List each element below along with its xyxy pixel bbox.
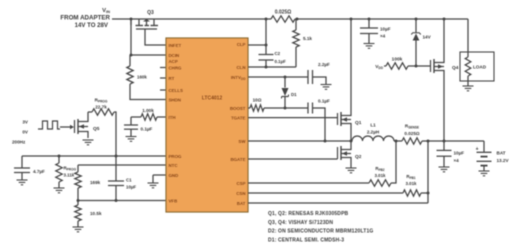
svg-text:2.2µH: 2.2µH	[367, 130, 380, 135]
svg-text:NTC: NTC	[169, 163, 179, 168]
capacitor 4.7uF	[14, 156, 45, 180]
capacitor 2.2uF	[308, 62, 330, 85]
ground Q5 source	[83, 140, 94, 145]
svg-text:3.01k: 3.01k	[406, 181, 418, 186]
wire top rail left segment	[131, 18, 271, 20]
wire divider mid	[77, 188, 80, 205]
capacitor C2 0.1uF	[259, 45, 287, 69]
svg-text:Q3, Q4: VISHAY Si7123DN: Q3, Q4: VISHAY Si7123DN	[268, 220, 333, 226]
svg-text:D1: CENTRAL SEMI. CMDSH-3: D1: CENTRAL SEMI. CMDSH-3	[268, 237, 344, 243]
transistor Q2	[338, 141, 362, 168]
svg-text:14V: 14V	[423, 35, 432, 40]
diode D1	[282, 77, 298, 108]
svg-text:169k: 169k	[90, 180, 101, 185]
capacitor input 10uF	[360, 18, 391, 44]
wire INTVDD	[248, 76, 308, 79]
svg-text:0.1µF: 0.1µF	[141, 127, 153, 132]
wire GND pin	[153, 175, 166, 183]
svg-text:13.2V: 13.2V	[497, 158, 510, 163]
resistor RCL 0.025ohm	[271, 10, 299, 23]
wire BOOST node	[264, 107, 308, 110]
svg-text:D2: ON SEMICONDUCTOR MBRM120LT: D2: ON SEMICONDUCTOR MBRM120LT1G	[268, 229, 373, 235]
svg-text:0.1µF: 0.1µF	[275, 59, 287, 64]
svg-text:GND: GND	[169, 173, 179, 178]
pin stub CELLS	[160, 89, 166, 91]
wire CSP	[248, 182, 369, 184]
svg-text:22.7k: 22.7k	[95, 105, 107, 110]
svg-text:+: +	[476, 147, 479, 153]
svg-text:VFB: VFB	[169, 198, 178, 203]
wire CLN	[248, 47, 296, 67]
svg-text:C2: C2	[275, 51, 281, 56]
resistor RFB1 3.01k	[403, 174, 421, 196]
svg-text:10µF: 10µF	[380, 27, 391, 32]
wire NTC row	[78, 165, 166, 172]
capacitor 0.1uF boost	[308, 99, 330, 142]
resistor 10.5k	[75, 205, 102, 221]
svg-text:C1: C1	[126, 178, 132, 183]
wire BAT	[248, 202, 428, 204]
svg-text:VIN: VIN	[102, 8, 110, 14]
ground 2.2uF	[321, 85, 332, 90]
resistor 100k	[386, 57, 408, 70]
transistor Q1	[338, 18, 362, 142]
svg-text:ACP: ACP	[169, 59, 178, 64]
wire CSN	[248, 192, 403, 194]
source square wave 200Hz	[12, 120, 60, 145]
transistor Q5	[75, 112, 100, 138]
wire BGATE	[248, 158, 338, 160]
ground Q2	[346, 168, 357, 173]
svg-text:200Hz: 200Hz	[12, 140, 26, 145]
svg-text:PROG: PROG	[169, 154, 183, 159]
svg-text:160k: 160k	[137, 75, 147, 80]
resistor RT 3.11k	[56, 156, 77, 188]
svg-text:ITH: ITH	[169, 115, 176, 120]
svg-text:DCIN: DCIN	[169, 53, 180, 58]
svg-text:Q1, Q2: RENESAS RJK0305DPB: Q1, Q2: RENESAS RJK0305DPB	[268, 211, 349, 217]
svg-text:3.01k: 3.01k	[375, 173, 387, 178]
ground battery	[479, 171, 490, 176]
resistor 169k	[75, 172, 101, 188]
svg-text:BAT: BAT	[497, 151, 506, 156]
svg-text:5.1k: 5.1k	[303, 36, 312, 41]
svg-text:FROM ADAPTER: FROM ADAPTER	[60, 14, 110, 21]
ground input cap	[364, 44, 375, 49]
wire VFB row	[78, 199, 166, 202]
svg-text:4.7µF: 4.7µF	[33, 169, 45, 174]
ground GND pin	[148, 183, 159, 188]
wire CSP up	[391, 141, 396, 183]
svg-text:LTC4012: LTC4012	[202, 96, 223, 102]
ground 3.11k	[54, 188, 65, 193]
svg-text:LOAD: LOAD	[473, 65, 487, 70]
node VIN input label	[60, 8, 110, 29]
resistor 5.1k	[293, 19, 313, 47]
ground output cap	[439, 167, 450, 172]
wire CLP	[248, 18, 268, 47]
op-amp U1 charger IC LTC4012	[166, 38, 248, 212]
wire BOOST pin	[248, 107, 250, 109]
wire top rail mid segment	[295, 18, 468, 20]
svg-text:3.11k: 3.11k	[64, 173, 75, 178]
notes text block	[268, 211, 373, 243]
svg-text:CSP: CSP	[236, 181, 245, 186]
svg-text:×4: ×4	[380, 34, 386, 39]
svg-text:CLP: CLP	[237, 42, 246, 47]
wire battery node down	[427, 141, 429, 203]
node VDD label	[375, 64, 384, 70]
ground ITH cap	[126, 137, 137, 142]
resistor RSENSE 0.025ohm	[402, 124, 430, 145]
svg-text:Q5: Q5	[93, 126, 100, 132]
inductor L1 2.2uH	[352, 123, 394, 142]
resistor RFB2 3.01k	[369, 166, 391, 186]
capacitor 0.1uF ITH	[124, 117, 153, 137]
svg-text:Q2: Q2	[355, 154, 362, 160]
svg-text:Q1: Q1	[355, 120, 362, 126]
svg-text:0.1µF: 0.1µF	[318, 99, 330, 104]
resistor 1.00k	[141, 108, 157, 120]
svg-text:SHDN: SHDN	[169, 97, 181, 102]
wire rail to load	[467, 19, 469, 52]
transistor Q4	[431, 18, 459, 142]
ground 4.7uF	[17, 180, 28, 185]
wire DCIN column	[130, 19, 167, 66]
pin stub RT	[160, 77, 166, 79]
svg-text:CHRG: CHRG	[169, 65, 183, 70]
wire 100k to Q4 gate	[408, 65, 431, 68]
resistor 160k	[127, 66, 148, 84]
wire 160k to SHDN pin	[130, 84, 166, 100]
svg-text:10Ω: 10Ω	[253, 98, 262, 103]
svg-text:10µF: 10µF	[126, 185, 136, 190]
wire VDD to 100k	[384, 65, 386, 67]
wire ITH	[131, 116, 166, 118]
svg-text:RT: RT	[169, 76, 175, 81]
wire TGATE	[248, 117, 338, 119]
wire input to top rail	[112, 18, 131, 20]
svg-text:100k: 100k	[392, 57, 403, 63]
svg-text:1.00k: 1.00k	[142, 108, 154, 113]
pin stub CHRG	[160, 67, 166, 69]
svg-text:10.5k: 10.5k	[90, 211, 102, 216]
svg-text:2.2µF: 2.2µF	[318, 62, 330, 67]
wire PROG rail	[22, 155, 166, 158]
wire squarewave to Q5 gate	[60, 125, 74, 129]
svg-text:SW: SW	[238, 139, 246, 144]
svg-text:Q4: Q4	[452, 65, 459, 71]
svg-text:TGATE: TGATE	[231, 115, 246, 120]
resistor RPROG 22.7k	[88, 98, 116, 157]
svg-text:BGATE: BGATE	[230, 157, 245, 162]
svg-text:0V: 0V	[22, 130, 29, 135]
wire CSN junction	[421, 192, 430, 195]
svg-text:0.025Ω: 0.025Ω	[275, 10, 292, 16]
wire L1 to RSENSE	[394, 140, 402, 143]
svg-text:CSN: CSN	[236, 191, 245, 196]
wire 10.5k to gnd	[77, 221, 79, 227]
svg-text:0.025Ω: 0.025Ω	[404, 131, 419, 136]
load box	[460, 52, 494, 86]
svg-text:BAT: BAT	[237, 201, 246, 206]
svg-text:BOOST: BOOST	[230, 106, 246, 111]
svg-text:3V: 3V	[22, 120, 29, 125]
svg-text:D1: D1	[291, 92, 297, 97]
svg-text:×4: ×4	[454, 158, 460, 163]
wire RSENSE to battery rail	[422, 140, 484, 143]
svg-text:INFET: INFET	[169, 43, 182, 48]
battery BAT 13.2V	[476, 141, 510, 171]
svg-text:L1: L1	[370, 123, 376, 128]
svg-text:14V TO 28V: 14V TO 28V	[75, 22, 109, 29]
svg-text:CELLS: CELLS	[169, 88, 183, 93]
wire SW	[248, 140, 353, 143]
svg-text:10µF: 10µF	[454, 151, 465, 156]
ground divider	[73, 227, 84, 232]
svg-text:CLN: CLN	[236, 65, 245, 70]
node input junction	[130, 18, 133, 21]
transistor Q3	[136, 10, 167, 45]
capacitor C1 10uF	[108, 156, 136, 201]
resistor 10ohm	[250, 98, 264, 112]
ground load	[463, 86, 474, 91]
svg-text:Q3: Q3	[147, 10, 154, 16]
diode zener 14V	[411, 18, 431, 67]
capacitor 10uF x4 output	[437, 141, 465, 167]
